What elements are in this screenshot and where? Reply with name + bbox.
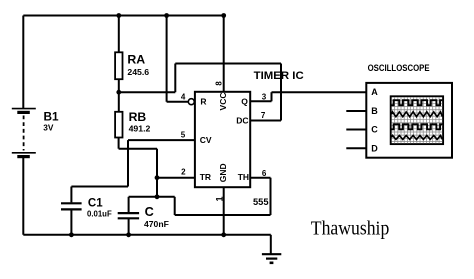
svg-text:4: 4 <box>181 93 186 102</box>
svg-text:C: C <box>145 205 154 219</box>
svg-text:0.01uF: 0.01uF <box>87 209 112 218</box>
svg-text:GND: GND <box>218 163 228 182</box>
svg-text:C1: C1 <box>88 198 103 210</box>
svg-text:Q: Q <box>241 96 248 106</box>
svg-text:3: 3 <box>262 92 267 101</box>
svg-text:RB: RB <box>129 110 147 124</box>
svg-text:1: 1 <box>214 196 224 201</box>
svg-text:RA: RA <box>127 53 145 67</box>
svg-text:491.2: 491.2 <box>129 123 151 133</box>
svg-text:2: 2 <box>181 167 186 176</box>
svg-text:C: C <box>371 125 378 135</box>
svg-text:TIMER IC: TIMER IC <box>254 70 304 82</box>
svg-text:7: 7 <box>261 111 266 120</box>
svg-text:VCC: VCC <box>218 93 228 111</box>
svg-text:5: 5 <box>181 131 186 140</box>
svg-text:DC: DC <box>236 115 248 125</box>
svg-text:470nF: 470nF <box>144 219 169 229</box>
svg-text:TR: TR <box>200 172 211 182</box>
svg-text:A: A <box>371 87 378 97</box>
svg-text:Thawuship: Thawuship <box>311 218 390 240</box>
svg-text:3V: 3V <box>43 122 54 132</box>
svg-text:R: R <box>200 96 206 106</box>
svg-text:8: 8 <box>215 81 224 86</box>
svg-text:D: D <box>371 144 378 154</box>
svg-text:B: B <box>371 106 378 116</box>
svg-text:6: 6 <box>262 169 267 178</box>
svg-text:245.6: 245.6 <box>127 67 149 77</box>
svg-text:TH: TH <box>238 172 249 182</box>
svg-text:555: 555 <box>253 197 269 207</box>
svg-text:CV: CV <box>200 135 212 145</box>
svg-text:OSCILLOSCOPE: OSCILLOSCOPE <box>368 63 430 73</box>
